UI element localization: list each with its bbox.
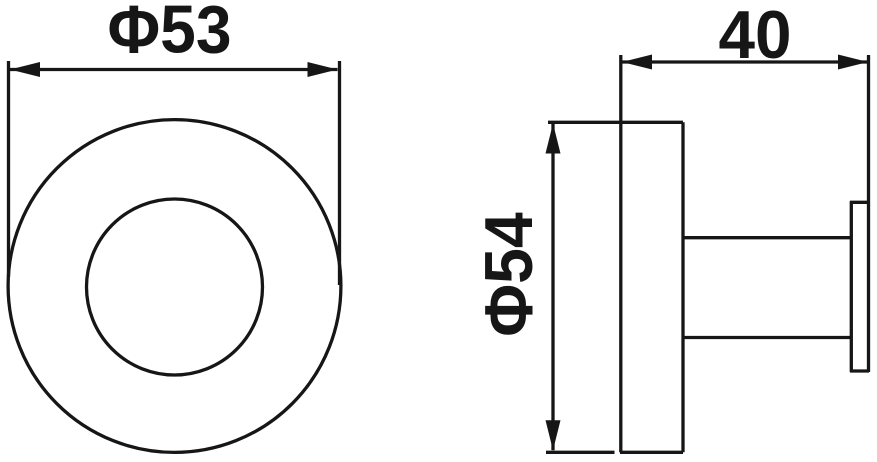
- arrowhead Φ54 top: [546, 124, 561, 154]
- svg-text:Φ53: Φ53: [108, 0, 232, 68]
- cap top edge: [850, 201, 869, 204]
- dimension line 40: [622, 60, 868, 63]
- cap bottom edge: [850, 369, 869, 372]
- Φ54 bottom extension line: [546, 451, 615, 454]
- dimension line Φ53: [10, 68, 338, 71]
- flange top edge + Φ54 top extension line: [548, 121, 683, 124]
- outer circle (front view, flange Φ53): [8, 120, 341, 453]
- stem bottom line (side view): [683, 336, 851, 339]
- flange right edge: [681, 122, 684, 452]
- stem top line (side view): [683, 236, 851, 239]
- extension line right (Φ53): [338, 61, 341, 285]
- arrowhead Φ53 left: [10, 62, 40, 77]
- flange bottom edge: [620, 451, 683, 454]
- arrowhead 40 left: [622, 55, 652, 70]
- arrowhead 40 right: [838, 55, 868, 70]
- arrowhead Φ54 bottom: [546, 420, 561, 450]
- svg-text:Φ54: Φ54: [471, 212, 547, 337]
- flange left edge + 40 left extension line: [619, 55, 622, 452]
- arrowhead Φ53 right: [308, 62, 338, 77]
- inner circle (front view, stem): [87, 199, 263, 375]
- dimension line Φ54: [551, 124, 554, 451]
- cap left edge: [850, 201, 853, 372]
- svg-text:40: 40: [719, 0, 792, 73]
- cap right edge + 40 right extension line: [867, 55, 870, 372]
- extension line left (Φ53): [7, 61, 10, 277]
